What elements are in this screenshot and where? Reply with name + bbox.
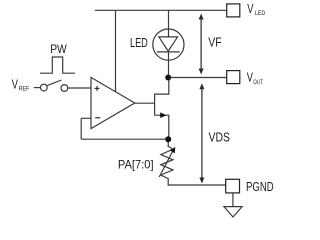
svg-text:V: V	[247, 2, 254, 16]
svg-text:VF: VF	[208, 35, 222, 49]
transistor Q1 source arrowhead	[160, 112, 166, 118]
VF measure arrow	[199, 14, 204, 75]
terminal V_OUT	[227, 71, 240, 84]
terminal PGND	[226, 179, 240, 193]
svg-text:REF: REF	[19, 87, 30, 93]
switch S1	[34, 80, 68, 91]
wire VOUT node to terminal	[168, 77, 227, 79]
svg-text:LED: LED	[130, 36, 148, 50]
wire ground stub	[232, 193, 234, 207]
LED D1	[153, 29, 184, 60]
wire source node to resistor	[167, 139, 169, 147]
wire top rail	[95, 9, 227, 11]
resistor PA[7:0] zigzag	[161, 146, 173, 178]
wire + input	[68, 87, 91, 89]
wire resistor bottom	[168, 178, 226, 185]
wire op-amp output	[135, 102, 155, 104]
wire - input	[81, 117, 91, 119]
resistor wiper arrowhead	[170, 147, 175, 153]
transistor Q1 source	[155, 115, 169, 139]
svg-text:OUT: OUT	[253, 80, 263, 86]
wire LED branch bottom	[168, 52, 170, 78]
terminal V_LED	[227, 4, 240, 17]
node source junction	[165, 136, 171, 142]
VDS measure arrow	[199, 83, 204, 183]
wire feedback vertical	[80, 118, 82, 139]
node VOUT junction	[165, 75, 171, 81]
resistor wiper arrow	[159, 150, 173, 177]
svg-text:LED: LED	[255, 11, 266, 17]
svg-text:PA[7:0]: PA[7:0]	[118, 157, 154, 171]
PW pulse waveform	[40, 57, 75, 73]
wire op-amp supply drop	[115, 10, 117, 91]
transistor Q1 gate bar	[154, 94, 156, 116]
svg-text:V: V	[12, 77, 19, 91]
op-amp U1	[91, 77, 135, 128]
transistor Q1 drain	[155, 78, 169, 95]
op-amp minus sign	[95, 117, 100, 119]
ground symbol	[224, 207, 242, 217]
wire feedback bottom	[81, 138, 168, 140]
svg-text:PW: PW	[50, 44, 67, 56]
op-amp plus sign	[95, 86, 100, 91]
svg-text:PGND: PGND	[246, 179, 274, 194]
svg-text:VDS: VDS	[209, 130, 231, 145]
wire LED branch top	[168, 10, 170, 37]
